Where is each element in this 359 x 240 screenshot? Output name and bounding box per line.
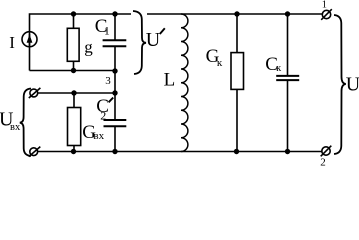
svg-text:L: L: [164, 70, 176, 91]
svg-text:вх: вх: [10, 122, 21, 133]
svg-text:к: к: [276, 63, 281, 74]
svg-text:1: 1: [104, 26, 110, 38]
svg-text:3: 3: [105, 75, 111, 87]
svg-text:2: 2: [100, 108, 106, 122]
svg-text:I: I: [9, 33, 15, 52]
svg-text:g: g: [84, 38, 93, 57]
svg-text:вх: вх: [93, 130, 104, 142]
svg-text:1: 1: [322, 0, 327, 10]
svg-text:2: 2: [320, 157, 326, 167]
svg-text:к: к: [217, 57, 223, 69]
svg-text:U: U: [346, 74, 359, 96]
svg-text:U: U: [146, 29, 161, 51]
